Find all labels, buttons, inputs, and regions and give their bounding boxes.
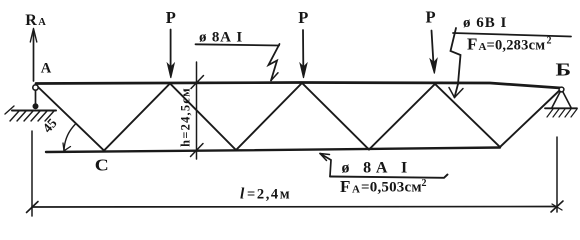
svg-text:l: l (240, 186, 245, 203)
svg-text:=0,503см: =0,503см (361, 180, 422, 196)
svg-text:P: P (426, 8, 436, 27)
svg-text:ø 6В I: ø 6В I (463, 15, 507, 31)
svg-text:R: R (25, 12, 37, 29)
svg-text:=0,283см: =0,283см (487, 37, 546, 53)
svg-text:A: A (352, 183, 360, 195)
svg-text:=2,4м: =2,4м (247, 187, 291, 203)
svg-text:A: A (479, 41, 487, 53)
svg-text:F: F (340, 177, 350, 196)
svg-text:2: 2 (422, 178, 427, 189)
svg-text:C: C (95, 156, 109, 175)
svg-text:A: A (41, 60, 52, 76)
svg-text:P: P (166, 8, 176, 27)
svg-text:h=24,5см: h=24,5см (179, 87, 193, 147)
svg-text:Б: Б (556, 59, 572, 79)
svg-text:A: A (38, 17, 46, 28)
svg-text:P: P (298, 8, 308, 27)
svg-text:2: 2 (547, 36, 552, 47)
svg-text:F: F (467, 35, 477, 54)
svg-text:ø 8А I: ø 8А I (342, 160, 413, 177)
svg-text:ø 8А I: ø 8А I (199, 30, 243, 46)
